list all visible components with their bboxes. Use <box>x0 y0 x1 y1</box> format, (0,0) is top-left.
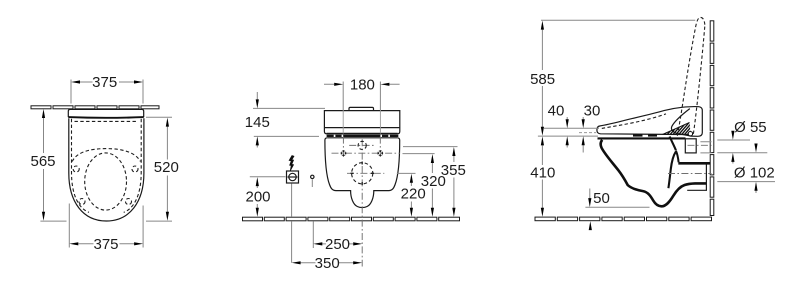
svg-text:Ø 102: Ø 102 <box>734 165 775 182</box>
svg-text:Ø 55: Ø 55 <box>734 119 767 136</box>
ceramic top reference line <box>538 135 598 137</box>
lightning bolt <box>289 156 294 171</box>
socket leader line <box>291 184 293 263</box>
cistern lid (top view rectangle) <box>68 109 143 117</box>
bowl inner hidden edge (dashed) <box>72 119 90 213</box>
dim 30 <box>582 103 601 153</box>
flush button <box>349 107 374 110</box>
svg-text:520: 520 <box>154 159 179 176</box>
top hole centerline <box>349 144 375 146</box>
bowl top edge (thick) <box>68 116 143 119</box>
dim 355 <box>403 147 466 217</box>
seat/shower unit profile <box>597 107 702 137</box>
flush channel curve <box>676 151 679 163</box>
dim 145 <box>245 92 325 148</box>
seat top reference line <box>544 127 599 129</box>
dim diameter 102 <box>717 144 775 194</box>
svg-text:50: 50 <box>593 190 610 207</box>
seat bumpers <box>633 134 643 136</box>
tank spud box <box>685 139 696 153</box>
seat top hidden line (dashed) <box>602 114 666 128</box>
svg-text:200: 200 <box>245 189 270 206</box>
electrical socket symbol <box>287 171 299 183</box>
horizontal centerline through side holes <box>332 152 400 154</box>
hinge pin circle <box>688 132 692 136</box>
bowl front outline <box>327 137 397 139</box>
LEFT VIEW (top view) <box>30 74 178 253</box>
trap weir line (thick) <box>668 137 676 189</box>
cistern cover <box>324 111 399 134</box>
MIDDLE VIEW (front view) <box>243 77 466 273</box>
bowl outer outline <box>69 118 144 221</box>
dim 520 right <box>146 117 179 221</box>
hidden water line (dashed gray) <box>579 132 596 134</box>
dim 350 <box>292 255 363 272</box>
dim 220 <box>397 173 426 216</box>
svg-text:585: 585 <box>530 71 555 88</box>
shower unit contour line <box>671 109 689 135</box>
dim diameter 55 <box>717 119 767 164</box>
bowl opening (dashed oval) <box>85 153 127 210</box>
svg-text:145: 145 <box>245 114 270 131</box>
RIGHT VIEW (side view) <box>530 17 775 230</box>
supply centerline <box>688 144 712 146</box>
drain pipe right edge and flange <box>687 165 706 191</box>
fixing hole left (crosshair) <box>341 151 345 155</box>
hole extension dashes <box>343 137 380 159</box>
seat fixing hole right upper <box>132 166 138 172</box>
ceramic rim (thick) <box>598 137 686 139</box>
svg-text:375: 375 <box>93 236 118 253</box>
dim 250 <box>313 236 362 253</box>
dim 40 <box>548 103 569 148</box>
seat section hatch <box>661 118 701 147</box>
tank spud hole (dashed circle) <box>358 141 366 149</box>
seat hinge band (dark) <box>327 135 399 137</box>
dim 375 bottom <box>69 204 143 253</box>
svg-text:565: 565 <box>30 153 55 170</box>
seat fixing hole left upper <box>73 166 79 172</box>
lid raised (dashed phantom) <box>677 17 705 135</box>
dim 200 <box>245 177 285 217</box>
water point leader line <box>312 222 314 249</box>
water connection point (small circle) <box>311 175 314 178</box>
dim 375 top <box>71 74 143 103</box>
svg-text:40: 40 <box>548 103 565 120</box>
bowl profile (thick) <box>601 140 707 207</box>
fixing hole right (crosshair) <box>378 151 382 155</box>
drain centerline <box>347 172 384 174</box>
seat ring outer arc (dashed hump) <box>72 149 140 162</box>
svg-text:375: 375 <box>92 74 117 91</box>
spud connection lines to wall <box>700 142 711 153</box>
wall plate (dashed bar) <box>31 106 159 109</box>
dim 320 <box>403 154 446 217</box>
vertical centerline <box>361 139 363 266</box>
svg-text:350: 350 <box>315 255 340 272</box>
dim 410 <box>530 136 555 216</box>
svg-text:30: 30 <box>584 103 601 120</box>
drain centerline <box>668 173 712 175</box>
dim 180 <box>324 77 400 134</box>
wall (dashed bar vertical) <box>710 21 714 216</box>
drain pipe top (thick) <box>678 162 710 165</box>
dim 585 <box>530 20 695 136</box>
dim 565 left <box>30 109 66 221</box>
crosshair ticks on drain circle <box>351 162 375 186</box>
floor (dashed bar) <box>243 217 460 221</box>
seat fixing hole left lower <box>79 199 85 205</box>
svg-text:220: 220 <box>401 186 426 203</box>
svg-text:250: 250 <box>325 236 350 253</box>
svg-text:180: 180 <box>350 77 375 94</box>
cistern seam line <box>325 127 400 129</box>
svg-text:410: 410 <box>530 165 555 182</box>
seat fixing hole right lower <box>126 199 132 205</box>
floor (dashed bar) <box>535 217 712 221</box>
drain hole (dashed circle) <box>352 163 373 184</box>
dim 50 <box>585 189 649 231</box>
